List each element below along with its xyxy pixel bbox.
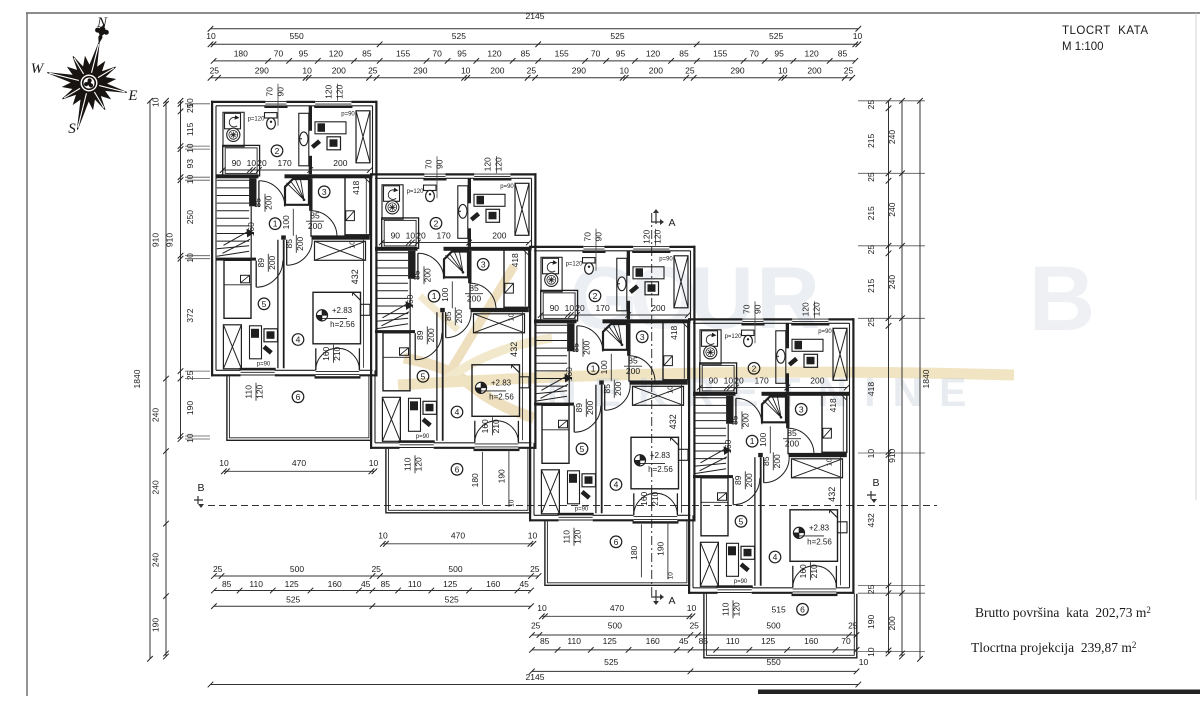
svg-text:10: 10	[185, 174, 195, 184]
unit2 dim 418 room3	[524, 251, 526, 306]
unit1 chair	[327, 137, 341, 150]
svg-text:85: 85	[679, 49, 689, 59]
svg-text:p=90: p=90	[341, 111, 355, 117]
svg-text:45: 45	[519, 579, 529, 589]
unit1 desk room5	[250, 326, 262, 359]
unit4 keyboard	[788, 357, 798, 367]
svg-text:p=120: p=120	[248, 116, 266, 122]
unit3 door D3 hall-room5	[573, 406, 575, 433]
unit2 shower cabin	[444, 252, 468, 278]
svg-text:70: 70	[265, 87, 275, 97]
svg-text:N: N	[96, 15, 108, 31]
svg-text:215: 215	[866, 278, 876, 292]
svg-text:89: 89	[733, 475, 743, 485]
unit1 keyboard	[311, 139, 321, 149]
svg-text:500: 500	[608, 621, 622, 631]
svg-text:525: 525	[286, 594, 300, 604]
svg-text:10: 10	[778, 65, 788, 75]
unit3 outer wall bottom	[529, 519, 559, 521]
unit1 toilet	[265, 113, 278, 118]
svg-text:3: 3	[322, 187, 327, 197]
section line B-B	[208, 505, 937, 507]
svg-text:432: 432	[668, 414, 678, 429]
svg-text:4: 4	[614, 480, 619, 490]
unit4 wall H2 (room3 bottom)	[789, 453, 847, 457]
svg-text:20: 20	[575, 303, 585, 313]
svg-text:25: 25	[866, 100, 876, 110]
svg-text:550: 550	[290, 31, 304, 41]
unit2 vanity counter	[458, 186, 468, 239]
unit3 wardrobe room5	[541, 470, 559, 514]
border frame right faint	[1195, 13, 1197, 500]
svg-text:160: 160	[246, 222, 256, 236]
svg-text:432: 432	[866, 513, 876, 527]
svg-text:p=90: p=90	[257, 362, 271, 368]
unit2 bathroom closet	[382, 218, 419, 249]
svg-text:100: 100	[281, 215, 291, 229]
svg-text:110: 110	[721, 602, 731, 616]
svg-text:200: 200	[426, 328, 436, 342]
svg-text:95: 95	[774, 49, 784, 59]
svg-text:180: 180	[234, 49, 248, 59]
unit1 window bottom room5	[241, 371, 275, 373]
svg-text:25: 25	[866, 172, 876, 182]
unit2 room circle 6	[451, 464, 463, 476]
svg-text:170: 170	[278, 158, 292, 168]
svg-text:180: 180	[470, 473, 480, 487]
unit1 wardrobe room5	[223, 325, 241, 369]
unit3 dim 432 room4	[681, 385, 683, 513]
unit1 dim 100	[292, 209, 294, 236]
svg-text:160: 160	[646, 636, 660, 646]
svg-text:25: 25	[689, 621, 699, 631]
unit1 room circle 4	[292, 334, 304, 346]
unit2 wall W2 (bathroom/workroom)	[468, 178, 471, 203]
unit3 stairs	[535, 324, 567, 326]
svg-text:200: 200	[810, 375, 824, 385]
svg-text:190: 190	[185, 401, 195, 415]
unit3 window bottom room5	[559, 516, 593, 518]
unit1 door D2 hall-room3	[310, 211, 312, 237]
svg-text:10: 10	[378, 530, 388, 540]
unit4 room circle 4	[769, 551, 781, 563]
unit2 stair arrow	[383, 304, 408, 318]
svg-text:200: 200	[295, 236, 305, 250]
unit1 shower cabin	[285, 179, 309, 205]
svg-text:2: 2	[593, 291, 598, 301]
svg-text:470: 470	[451, 530, 465, 540]
svg-text:85: 85	[571, 343, 581, 353]
svg-text:200: 200	[651, 303, 665, 313]
unit2 outer wall left	[370, 173, 372, 449]
svg-text:90: 90	[753, 304, 763, 314]
unit4 wardrobe room4	[792, 459, 843, 478]
watermark logo yellow swoosh	[398, 266, 1014, 418]
unit3 stair arrow	[542, 376, 567, 390]
unit4 stairs	[694, 397, 726, 399]
svg-text:70: 70	[742, 304, 752, 314]
unit2 room circle 4	[451, 406, 463, 418]
svg-text:160: 160	[564, 367, 574, 381]
svg-text:10: 10	[687, 603, 697, 613]
svg-text:190: 190	[496, 469, 506, 483]
svg-text:120: 120	[653, 229, 663, 243]
svg-text:90: 90	[435, 159, 445, 169]
svg-text:10: 10	[369, 458, 379, 468]
svg-text:110: 110	[403, 457, 413, 471]
svg-text:2: 2	[752, 363, 757, 373]
unit1 outer wall right	[375, 101, 377, 377]
unit1 dim 70/90 window	[277, 84, 279, 126]
unit3 bathroom closet	[541, 290, 578, 321]
svg-text:M 1:100: M 1:100	[1062, 41, 1104, 53]
unit2 outer wall bottom	[370, 447, 400, 449]
unit2 stair wall	[408, 251, 415, 279]
svg-text:10: 10	[619, 65, 629, 75]
svg-text:25: 25	[866, 584, 876, 594]
unit2 dim 70/90 window	[436, 156, 438, 198]
svg-text:110: 110	[408, 579, 422, 589]
svg-text:25: 25	[848, 621, 858, 631]
svg-text:500: 500	[290, 564, 304, 574]
svg-text:1840: 1840	[132, 369, 142, 388]
unit2 washing machine	[384, 186, 400, 202]
svg-text:Tlocrtna projekcija 239,87 m2: Tlocrtna projekcija 239,87 m2	[971, 640, 1136, 655]
svg-text:525: 525	[769, 31, 783, 41]
svg-text:200: 200	[467, 294, 481, 304]
svg-text:89: 89	[574, 403, 584, 413]
unit1 wall H1 (below bathroom row)	[216, 174, 259, 178]
svg-text:290: 290	[255, 65, 269, 75]
svg-text:200: 200	[626, 366, 640, 376]
unit2 dim 120/120 window	[496, 156, 498, 173]
unit4 wall W3 (room5/room4)	[754, 457, 756, 586]
unit4 bathroom niche	[700, 330, 721, 364]
svg-text:120: 120	[801, 302, 811, 316]
unit3 room circle 3	[636, 331, 648, 343]
unit3 wardrobe room2	[674, 256, 688, 308]
unit2 stairs	[376, 252, 408, 254]
svg-text:85: 85	[838, 49, 848, 59]
unit2 desk room5	[409, 398, 421, 431]
svg-text:90: 90	[391, 230, 401, 240]
svg-text:85: 85	[381, 579, 391, 589]
svg-text:10: 10	[866, 647, 876, 657]
svg-text:10: 10	[185, 433, 195, 443]
svg-text:25: 25	[527, 65, 537, 75]
unit1 wall H2 (room3 bottom)	[312, 235, 370, 239]
svg-text:Brutto površina kata 202,73: Brutto površina kata 202,73 m2	[975, 605, 1151, 620]
unit3 desk	[633, 267, 664, 279]
unit1 washing machine	[225, 113, 241, 129]
unit3 terrace walls	[545, 521, 690, 585]
unit2 bed room3	[504, 248, 529, 307]
svg-text:p=90: p=90	[500, 184, 514, 190]
svg-text:95: 95	[299, 49, 309, 59]
unit2 window bottom room5	[400, 444, 434, 446]
svg-text:10: 10	[537, 603, 547, 613]
unit2 sink	[459, 204, 467, 218]
svg-text:93: 93	[185, 159, 195, 169]
svg-text:85: 85	[310, 211, 320, 221]
svg-text:200: 200	[585, 400, 595, 414]
svg-text:160: 160	[480, 419, 490, 433]
svg-text:200: 200	[423, 268, 433, 282]
svg-text:45: 45	[679, 636, 689, 646]
svg-text:p=120: p=120	[725, 334, 743, 340]
unit1 dim 418 room3	[365, 179, 367, 234]
svg-text:10: 10	[350, 241, 357, 249]
top dim chain walls row	[211, 77, 853, 79]
svg-text:2145: 2145	[526, 11, 545, 21]
unit3 door D2 hall-room3	[628, 356, 630, 382]
svg-text:418: 418	[669, 325, 679, 339]
unit3 vanity counter	[617, 258, 627, 311]
unit4 vanity counter	[776, 331, 786, 384]
chain 25 500 25 500 25	[214, 575, 539, 577]
svg-text:10: 10	[509, 499, 516, 507]
unit1 dim 120/120 window	[337, 84, 339, 101]
svg-text:20: 20	[734, 375, 744, 385]
svg-text:2: 2	[275, 146, 280, 156]
svg-text:25: 25	[866, 245, 876, 255]
svg-text:240: 240	[151, 553, 161, 567]
unit2 wall H1 (below bathroom row)	[375, 247, 418, 251]
unit3 outer wall right	[693, 246, 695, 522]
unit1 wall W1 (hall/room3)	[309, 178, 312, 211]
svg-text:+2.83: +2.83	[650, 451, 671, 460]
unit3 keyboard	[629, 284, 639, 294]
svg-text:70: 70	[432, 49, 442, 59]
svg-text:240: 240	[151, 480, 161, 494]
unit2 chair	[486, 209, 500, 222]
unit4 window bottom room5	[718, 589, 752, 591]
svg-text:85: 85	[521, 49, 531, 59]
svg-text:200: 200	[785, 439, 799, 449]
svg-text:210: 210	[809, 564, 819, 578]
svg-text:200: 200	[741, 413, 751, 427]
unit1 desk	[315, 122, 346, 134]
svg-text:4: 4	[455, 407, 460, 417]
svg-text:125: 125	[603, 636, 617, 646]
unit1 door D1 hall-bath	[258, 181, 260, 207]
svg-text:155: 155	[396, 49, 410, 59]
svg-text:110: 110	[562, 530, 572, 544]
unit3 wall W2 (bathroom/workroom)	[627, 251, 630, 276]
chain 85 110 125 160 45 x2	[214, 590, 531, 592]
svg-text:290: 290	[730, 65, 744, 75]
unit2 french door D6	[474, 421, 476, 443]
svg-text:p=90: p=90	[416, 434, 430, 440]
unit2 wall W3 (room5/room4)	[436, 312, 438, 441]
svg-text:120: 120	[494, 157, 504, 171]
svg-text:290: 290	[572, 65, 586, 75]
unit1 bed room3	[345, 176, 370, 235]
svg-text:10: 10	[668, 572, 675, 580]
unit2 keyboard	[470, 212, 480, 222]
unit2 window 70x90 top	[424, 173, 445, 175]
svg-text:85: 85	[412, 270, 422, 280]
svg-text:p=90: p=90	[575, 507, 589, 513]
unit2 terrace walls	[386, 449, 531, 513]
unit4 stair arrow	[701, 449, 726, 463]
unit4 outer wall left	[688, 318, 690, 594]
unit4 wall W1 (hall/room3)	[786, 396, 789, 429]
unit1 side table room4	[361, 304, 371, 315]
svg-text:200: 200	[582, 340, 592, 354]
svg-text:2: 2	[434, 218, 439, 228]
svg-text:A: A	[668, 217, 675, 229]
svg-text:6: 6	[455, 464, 460, 474]
svg-text:200: 200	[649, 65, 663, 75]
svg-text:85: 85	[362, 49, 372, 59]
svg-text:89: 89	[415, 330, 425, 340]
svg-text:120: 120	[732, 602, 742, 616]
unit1 window 70x90 top	[265, 101, 286, 103]
svg-text:10: 10	[151, 97, 161, 107]
unit4 dim 70/90 window	[754, 301, 756, 343]
unit1 bathroom niche	[223, 112, 244, 146]
unit3 toilet	[583, 258, 596, 263]
svg-text:10: 10	[185, 253, 195, 263]
svg-text:25: 25	[371, 564, 381, 574]
svg-text:A: A	[668, 595, 675, 607]
svg-text:85: 85	[730, 415, 740, 425]
svg-text:125: 125	[285, 579, 299, 589]
svg-text:h=2.56: h=2.56	[648, 465, 673, 474]
chain 525 550	[532, 670, 857, 672]
svg-text:418: 418	[866, 382, 876, 396]
svg-text:418: 418	[351, 180, 361, 194]
unit2 bed room5	[383, 333, 410, 391]
unit3 terrace dims 180 190	[640, 524, 642, 577]
unit4 door D3 hall-room5	[732, 478, 734, 505]
svg-text:290: 290	[413, 65, 427, 75]
unit2 outer wall right	[534, 173, 536, 449]
unit1 wardrobe room4	[315, 241, 366, 260]
svg-text:200: 200	[454, 309, 464, 323]
unit2 dim 100	[451, 281, 453, 308]
unit4 room4 carpet square	[790, 510, 838, 562]
svg-text:200: 200	[332, 65, 346, 75]
svg-text:90: 90	[594, 232, 604, 242]
svg-text:p=120: p=120	[407, 189, 425, 195]
top dim chain windows row	[214, 60, 856, 62]
unit3 wall H3 (below stairs)	[534, 403, 574, 406]
unit2 room circle 2	[430, 218, 442, 230]
svg-text:160: 160	[804, 636, 818, 646]
svg-text:120: 120	[414, 457, 424, 471]
svg-text:418: 418	[828, 398, 838, 412]
svg-text:120: 120	[642, 229, 652, 243]
svg-text:200: 200	[492, 230, 506, 240]
unit4 room circle 3	[795, 404, 807, 416]
unit3 wall W3 (room5/room4)	[595, 385, 597, 514]
svg-text:h=2.56: h=2.56	[489, 392, 514, 401]
svg-text:120: 120	[487, 49, 501, 59]
svg-text:100: 100	[440, 287, 450, 301]
unit3 desk room5	[568, 471, 580, 504]
unit2 door D3 hall-room5	[414, 333, 416, 360]
unit1 door D3 hall-room5	[255, 261, 257, 288]
svg-text:155: 155	[713, 49, 727, 59]
svg-text:120: 120	[483, 157, 493, 171]
unit4 door D2 hall-room3	[787, 428, 789, 454]
svg-text:470: 470	[610, 603, 624, 613]
svg-text:200: 200	[613, 381, 623, 395]
svg-text:70: 70	[591, 49, 601, 59]
unit2 room circle 5	[417, 371, 429, 383]
unit2 toilet	[424, 185, 437, 190]
unit4 wall W2 (bathroom/workroom)	[786, 323, 789, 348]
svg-text:110: 110	[244, 385, 254, 399]
unit4 wardrobe room2	[833, 328, 847, 380]
svg-text:200: 200	[490, 65, 504, 75]
svg-text:10: 10	[853, 31, 863, 41]
unit3 outer wall left	[529, 246, 531, 522]
svg-text:215: 215	[866, 134, 876, 148]
svg-text:3: 3	[481, 259, 486, 269]
svg-text:155: 155	[555, 49, 569, 59]
svg-text:10: 10	[206, 31, 216, 41]
unit1 stair wall	[249, 178, 256, 206]
svg-text:200: 200	[744, 473, 754, 487]
unit3 side table room4	[679, 449, 689, 460]
svg-text:180: 180	[629, 545, 639, 559]
unit4 toilet	[742, 330, 755, 335]
unit3 stair wall	[567, 323, 574, 351]
unit2 elevation mark +2.83	[475, 382, 486, 393]
svg-text:90: 90	[550, 303, 560, 313]
svg-text:10: 10	[565, 303, 575, 313]
unit2 room circle 1	[428, 290, 440, 302]
unit1 wardrobe room2	[356, 111, 370, 163]
svg-text:85: 85	[443, 311, 453, 321]
unit2 room circle 3	[477, 259, 489, 271]
svg-text:5: 5	[421, 371, 426, 381]
unit2 wardrobe room4	[474, 314, 525, 333]
svg-text:10: 10	[827, 458, 834, 466]
svg-text:95: 95	[457, 49, 467, 59]
svg-text:418: 418	[510, 253, 520, 267]
svg-text:550: 550	[767, 657, 781, 667]
unit4 side table room4	[838, 522, 848, 533]
svg-text:4: 4	[773, 552, 778, 562]
svg-text:190: 190	[151, 618, 161, 632]
unit4 bed room3	[822, 393, 847, 452]
svg-text:125: 125	[761, 636, 775, 646]
left dim chain 1840	[149, 101, 151, 659]
unit3 bed room5	[542, 405, 569, 463]
unit4 door D6 threshold	[793, 588, 837, 590]
unit4 window 70x90 top	[742, 318, 763, 320]
right dim chain detail 25 215 ... 418 10 432 25 190 10	[888, 101, 890, 654]
unit3 dim 120/120 window	[655, 229, 657, 246]
unit2 door D2 hall-room3	[469, 283, 471, 309]
svg-text:1: 1	[591, 364, 596, 374]
svg-text:200: 200	[308, 221, 322, 231]
svg-text:25: 25	[368, 65, 378, 75]
svg-text:25: 25	[210, 65, 220, 75]
svg-text:B: B	[1029, 248, 1095, 350]
svg-text:25: 25	[866, 317, 876, 327]
unit4 desk	[792, 339, 823, 351]
svg-text:120: 120	[812, 302, 822, 316]
unit4 door D1 hall-bath	[735, 398, 737, 424]
unit3 sink	[618, 277, 626, 291]
unit4 sink	[777, 349, 785, 363]
unit4 french door D6	[792, 566, 794, 588]
